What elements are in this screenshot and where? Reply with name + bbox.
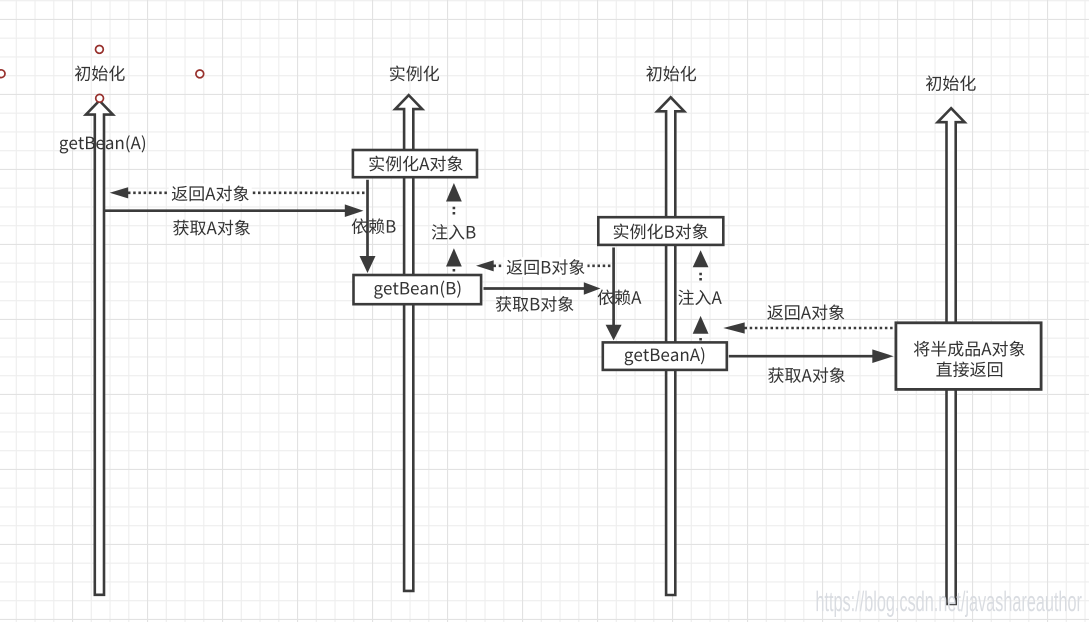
label 实例化 (lifeline 2) <box>390 66 439 82</box>
solid down arrow 依赖B <box>366 180 369 257</box>
label 依赖B <box>352 218 396 234</box>
watermark text blog.csdn.net/javashareauthor <box>817 591 1082 617</box>
dotted up arrow 注入B (upper segment) <box>446 183 462 202</box>
lifeline 2 实例化 <box>395 95 422 591</box>
label 初始化 (lifeline 4) <box>926 75 976 91</box>
red endpoint circle right of lifeline1 label <box>196 70 204 78</box>
label getBeanA) <box>625 347 705 365</box>
dotted arrow 返回A对象 (top left) <box>128 192 368 195</box>
label 返回A对象 (right) <box>767 304 844 320</box>
dotted arrow 返回A对象 (right) <box>745 327 894 330</box>
label 获取A对象 (top) <box>173 220 250 236</box>
red endpoint circle above lifeline1 label <box>96 46 104 54</box>
label 初始化 (lifeline 3) <box>646 66 696 82</box>
label 返回B对象 <box>504 257 588 277</box>
solid arrow 获取B对象 <box>484 287 586 290</box>
label getBean(A) on lifeline 1 <box>60 135 145 153</box>
lifeline 3 初始化 (B) <box>657 97 684 595</box>
label 实例化A对象 <box>369 156 462 172</box>
dotted arrow 返回B对象 <box>494 264 613 267</box>
dotted up arrow 注入A (upper segment) <box>693 250 709 267</box>
box 将半成品A对象直接返回 <box>896 323 1041 390</box>
dotted up arrow 注入B (lower segment) <box>446 248 462 266</box>
label 实例化B对象 <box>614 224 708 240</box>
box 实例化B对象 <box>598 217 723 245</box>
label 注入B <box>432 224 476 240</box>
box 实例化A对象 <box>353 150 477 177</box>
label 依赖A <box>598 289 642 305</box>
lifeline 4 初始化 (A half-product) <box>938 108 965 604</box>
solid arrow 获取A对象 (top) <box>105 209 346 212</box>
label 初始化 (lifeline 1) <box>75 65 125 81</box>
solid down arrow 依赖A <box>612 248 615 327</box>
solid arrow 获取A对象 (right) <box>729 355 874 358</box>
red endpoint circle on lifeline1 apex <box>96 94 104 102</box>
label 将半成品A对象 <box>914 341 1025 357</box>
label getBean(B) <box>374 281 460 299</box>
label 获取A对象 (right) <box>768 367 845 383</box>
label 注入A <box>678 290 722 306</box>
label 获取B对象 <box>496 296 574 312</box>
label 返回A对象 (top) <box>169 184 252 204</box>
dotted up arrow 注入A (lower segment) <box>693 316 709 334</box>
box getBean(B) <box>354 275 482 304</box>
box getBeanA) <box>603 342 727 370</box>
red endpoint circle at left edge <box>0 70 5 78</box>
label 直接返回 <box>936 361 1002 377</box>
lifeline 1 初始化 (getBean(A) call) <box>86 101 113 595</box>
